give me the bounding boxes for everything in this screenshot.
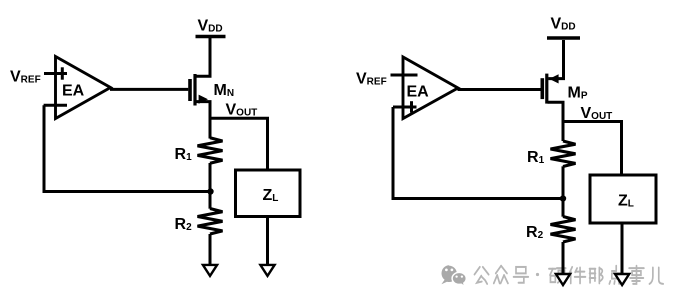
svg-text:MN: MN [214,82,235,99]
svg-text:R1: R1 [175,146,193,163]
svg-text:R2: R2 [526,224,544,241]
svg-text:EA: EA [407,83,430,100]
svg-text:VOUT: VOUT [581,105,613,122]
svg-text:ZL: ZL [263,187,279,204]
svg-text:VOUT: VOUT [226,102,258,119]
svg-text:MP: MP [568,84,588,101]
svg-text:VREF: VREF [10,68,41,85]
svg-text:R2: R2 [175,216,193,233]
svg-text:ZL: ZL [618,193,634,210]
svg-text:R1: R1 [527,149,545,166]
svg-text:EA: EA [62,82,85,99]
svg-text:VREF: VREF [356,71,387,88]
svg-text:VDD: VDD [198,18,223,35]
svg-text:VDD: VDD [551,15,576,32]
